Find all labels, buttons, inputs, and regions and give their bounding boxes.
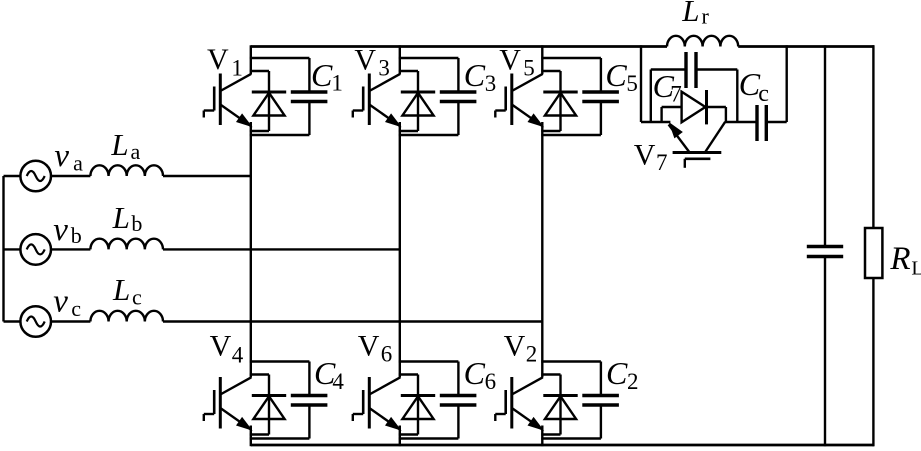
wire [250, 57, 310, 59]
svg-text:3: 3 [378, 55, 390, 80]
label V4 [210, 330, 244, 368]
svg-text:V: V [504, 330, 526, 363]
svg-text:c: c [71, 296, 81, 321]
wire leg 3 middle [541, 122, 543, 378]
svg-text:4: 4 [232, 343, 244, 368]
wire clamp right riser [786, 45, 788, 122]
label La [110, 127, 140, 164]
wire leg 3 upper [541, 45, 543, 74]
svg-text:2: 2 [627, 369, 639, 394]
wire leg 1 upper [250, 45, 252, 74]
wire phase c to leg 3 [163, 320, 542, 322]
IGBT V4 [204, 377, 252, 430]
label V5 [499, 43, 535, 80]
wire [541, 134, 601, 136]
wire [541, 437, 601, 439]
svg-text:3: 3 [485, 71, 497, 96]
diode D of V4 [250, 375, 286, 435]
label C1 [311, 57, 343, 96]
label RL [889, 241, 921, 280]
label C6 [464, 355, 497, 394]
wire vc to Lc [51, 320, 90, 322]
svg-text:C: C [606, 355, 628, 391]
svg-text:r: r [702, 4, 710, 29]
wire leg 1 lower [250, 426, 252, 447]
wire leg 1 middle [250, 122, 252, 378]
svg-text:L: L [681, 0, 699, 28]
wire bottom DC rail [251, 444, 874, 447]
IGBT V2 [495, 377, 543, 430]
label V3 [354, 43, 390, 80]
label Lr [681, 0, 709, 29]
wire clamp bottom middle [725, 121, 757, 123]
wire [399, 57, 459, 59]
wire C7 branch top right [696, 68, 737, 70]
wire [399, 360, 459, 362]
wire va to La [51, 175, 90, 177]
label vb [53, 212, 82, 248]
wire clamp left drop [640, 45, 642, 122]
wire [399, 134, 459, 136]
svg-text:7: 7 [656, 150, 668, 175]
wire C7 branch right [736, 70, 738, 123]
inductor Lc [90, 311, 163, 322]
wire va left [4, 175, 21, 177]
label C3 [464, 57, 497, 96]
capacitor Cc [757, 105, 766, 141]
svg-text:v: v [54, 138, 69, 174]
diode D of V5 [541, 71, 577, 131]
wire C7 branch left [650, 70, 652, 123]
svg-text:c: c [132, 285, 142, 310]
svg-text:b: b [131, 211, 142, 236]
svg-text:R: R [889, 241, 910, 277]
svg-text:v: v [53, 283, 68, 319]
svg-text:V: V [499, 43, 521, 76]
capacitor C7 [686, 52, 696, 88]
wire DC cap upper lead [824, 45, 826, 246]
wire top DC rail right [738, 45, 874, 48]
wire left bus [2, 176, 4, 322]
svg-text:5: 5 [523, 55, 535, 80]
svg-text:C: C [311, 57, 333, 93]
diode D of V3 [399, 71, 435, 131]
label V1 [207, 43, 243, 81]
svg-text:v: v [53, 212, 68, 248]
svg-text:L: L [112, 272, 130, 307]
wire leg 2 middle [399, 122, 401, 378]
svg-text:L: L [911, 258, 921, 280]
wire vb to Lb [51, 248, 90, 250]
inductor La [90, 165, 163, 176]
svg-text:V: V [210, 330, 232, 363]
capacitor C6 [440, 362, 477, 439]
svg-text:a: a [73, 150, 83, 175]
resistor RL [865, 228, 882, 278]
svg-text:V: V [207, 43, 229, 76]
label va [54, 138, 83, 176]
svg-text:L: L [110, 127, 128, 162]
label C4 [314, 355, 344, 394]
wire [541, 57, 601, 59]
wire [250, 360, 310, 362]
label C2 [606, 355, 639, 394]
capacitor C4 [291, 362, 328, 439]
svg-text:5: 5 [626, 71, 638, 96]
svg-text:L: L [112, 200, 130, 235]
label V2 [504, 330, 538, 367]
svg-text:C: C [464, 355, 486, 391]
IGBT V5 [495, 74, 543, 127]
AC source vb [20, 234, 51, 265]
wire leg 2 lower [399, 426, 401, 447]
capacitor C5 [582, 58, 619, 135]
wire vb left [4, 248, 21, 250]
label Cc [739, 66, 769, 107]
svg-text:4: 4 [332, 369, 344, 394]
label Lc [112, 272, 142, 310]
inductor Lr [667, 36, 738, 47]
svg-text:7: 7 [670, 82, 682, 107]
diode D of V7 [662, 90, 726, 124]
IGBT V1 [204, 74, 252, 127]
diode D of V2 [541, 375, 577, 435]
svg-text:b: b [71, 223, 82, 248]
wire right bus upper [872, 45, 874, 229]
label C7 [653, 68, 682, 107]
wire [399, 437, 459, 439]
capacitor C3 [440, 58, 477, 135]
svg-text:V: V [634, 139, 656, 172]
wire phase a to leg 1 [163, 175, 251, 177]
wire leg 2 upper [399, 45, 401, 74]
label vc [53, 283, 81, 321]
diode D of V6 [399, 375, 435, 435]
svg-text:a: a [131, 139, 141, 164]
wire phase b to leg 2 [163, 248, 400, 250]
diode D of V1 [250, 71, 286, 131]
wire top DC rail left [251, 45, 667, 48]
svg-text:6: 6 [485, 369, 497, 394]
svg-text:1: 1 [231, 55, 243, 80]
svg-text:C: C [605, 57, 627, 93]
IGBT V6 [353, 377, 401, 430]
svg-text:1: 1 [331, 71, 343, 96]
wire [250, 437, 310, 439]
wire [250, 134, 310, 136]
svg-text:C: C [464, 57, 486, 93]
inductor Lb [90, 239, 163, 250]
label V6 [358, 330, 393, 367]
wire clamp bottom right [766, 121, 786, 123]
IGBT V3 [353, 74, 401, 127]
capacitor DC link [807, 247, 843, 257]
label C5 [605, 57, 638, 96]
svg-text:c: c [758, 81, 769, 107]
AC source va [20, 161, 51, 192]
svg-text:2: 2 [526, 341, 538, 366]
wire clamp bottom left [641, 121, 670, 123]
wire C7 branch top left [651, 68, 686, 70]
wire [541, 360, 601, 362]
wire leg 3 lower [541, 426, 543, 447]
AC source vc [20, 306, 51, 337]
capacitor C2 [582, 362, 619, 439]
svg-text:6: 6 [381, 342, 393, 367]
label Lb [112, 200, 143, 236]
capacitor C1 [291, 58, 328, 135]
wire vc left [4, 320, 21, 322]
label V7 [634, 139, 668, 176]
svg-text:V: V [354, 43, 376, 76]
svg-text:V: V [358, 330, 380, 363]
wire DC cap lower lead [824, 257, 826, 447]
wire right bus lower [872, 278, 874, 446]
IGBT V7 [669, 122, 726, 168]
